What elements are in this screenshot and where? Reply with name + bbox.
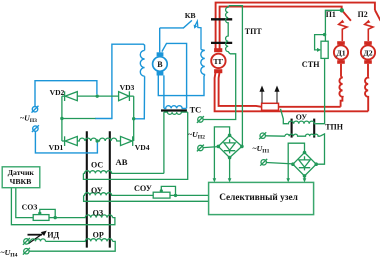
resistor СОУ bbox=[153, 192, 170, 198]
wire: Д2 to series coil bbox=[367, 64, 369, 77]
wire: ТГ bottom-right down to shunt bbox=[219, 72, 262, 107]
wire: terminal to ИД bbox=[29, 240, 30, 242]
wire: terminal to ТПН working winding bbox=[266, 135, 286, 137]
coil ТС secondary bbox=[164, 112, 188, 114]
core bar АВ right bbox=[109, 131, 111, 247]
svg-text:ИД: ИД bbox=[47, 230, 59, 239]
svg-text:ТПН: ТПН bbox=[325, 123, 344, 132]
switch П2 arrow contact bbox=[365, 21, 373, 41]
shunt resistor (ammeter shunt) bbox=[262, 103, 279, 110]
wire: СОЗ bypass jumper bbox=[40, 209, 55, 217]
coil Д2 series field bbox=[365, 77, 368, 98]
coil В field winding bbox=[140, 50, 144, 76]
winding АВ working right bbox=[97, 138, 120, 141]
winding АВ working left bbox=[77, 138, 97, 141]
terminal ~Uп1 lower bbox=[261, 160, 266, 165]
generator ТГ circle bbox=[211, 54, 225, 68]
wire: В top brush to КВ bbox=[159, 28, 161, 52]
wire: ТГ top-right to inner top bus to П1 bbox=[220, 7, 342, 50]
shunt arrow right bbox=[276, 91, 278, 103]
wire: ОР return loop to terminal bbox=[29, 241, 115, 251]
core bar ИД bbox=[28, 234, 43, 236]
svg-text:Д2: Д2 bbox=[363, 48, 372, 57]
node bridge ТПТ vertices bbox=[228, 134, 232, 138]
motor Д1 brushes bbox=[214, 20, 372, 74]
svg-text:ТС: ТС bbox=[190, 105, 202, 114]
svg-text:СОЗ: СОЗ bbox=[22, 202, 38, 211]
wire: VD3 cathode to junction bbox=[129, 95, 133, 97]
wire: Д1 coil to shunt line bbox=[341, 98, 343, 107]
wire: Д1 to series coil bbox=[340, 64, 342, 77]
coil Д1 series field bbox=[339, 77, 342, 98]
motor Д1 circle bbox=[334, 45, 348, 59]
diode VD2 bbox=[64, 91, 66, 101]
winding ОС bbox=[83, 171, 112, 174]
wire: ТПН bridge - to selective node bbox=[304, 176, 306, 179]
diode VD3 bbox=[119, 92, 129, 101]
wire: rectifier output up to exciter field bbox=[95, 44, 145, 118]
winding ОР bbox=[85, 239, 113, 242]
wire: ТПН bridge + to selective node bbox=[288, 143, 304, 179]
wire: ОЗ return loop to sensor bbox=[11, 188, 115, 225]
switch П1 blade bbox=[342, 10, 351, 20]
winding ТПН working bbox=[285, 134, 320, 136]
node П1 tap to СТН bbox=[325, 10, 341, 41]
ИД adjust arrow bbox=[28, 233, 43, 244]
wire: ОС left loop to ТС secondary right bbox=[83, 112, 187, 179]
svg-text:АВ: АВ bbox=[116, 157, 128, 167]
contact КВ blade bbox=[183, 20, 192, 28]
terminal ~Uп3 lower bbox=[33, 126, 38, 131]
wire: ЧВКВ sensor to СОЗ bbox=[16, 188, 33, 218]
svg-text:Селективный узел: Селективный узел bbox=[219, 192, 298, 203]
svg-text:П2: П2 bbox=[358, 10, 368, 19]
terminal ~Uп2 lower bbox=[198, 145, 203, 150]
svg-text:ТГ: ТГ bbox=[213, 57, 223, 66]
wire: ТГ bottom-left down to lower return bus bbox=[215, 72, 369, 111]
bridge ТПТ inner diode bbox=[224, 139, 235, 153]
wire: VD2 to VD3 anode row bbox=[77, 95, 118, 97]
wire: СТН bypass with arrow bbox=[315, 35, 325, 50]
wire: Д2 coil to lower return line bbox=[367, 98, 369, 112]
rectifier bridge (ТПТ) diamond bbox=[218, 135, 242, 157]
П2 arrowhead bbox=[366, 20, 371, 24]
wire: ТПТ bottom to terminal ~Uп2 bbox=[203, 54, 236, 120]
wire: cathode bus VD3-VD4 bbox=[133, 96, 135, 141]
wire: ТГ field coil to В bottom brush bbox=[158, 74, 205, 95]
node СОЗ tap bbox=[38, 212, 41, 215]
svg-text:ОР: ОР bbox=[93, 230, 104, 239]
terminal ~Uп4 upper bbox=[24, 239, 29, 244]
svg-text:Датчик: Датчик bbox=[8, 168, 35, 177]
wire: ТС left to ОС right end bbox=[113, 172, 164, 174]
resistor СТН bbox=[321, 41, 328, 58]
wire: В top brush diagonal to ТС primary right bbox=[162, 43, 187, 108]
contact КВ fixed lead bbox=[160, 27, 184, 29]
box Датчик ЧВКВ bbox=[2, 167, 40, 188]
arrow into selective node from ТПТ bridge + bbox=[213, 178, 217, 182]
wire: ОУ right to СОУ bbox=[113, 194, 154, 196]
wire: ТПН working to right bridge AC bbox=[316, 134, 324, 164]
arrow into selective node from ТПТ bridge - bbox=[228, 178, 232, 182]
node VD2/VD3 AC bbox=[96, 94, 99, 97]
core bar ТПТ top bbox=[211, 18, 232, 20]
wire: lower terminal to VD1/VD4 junction bbox=[35, 131, 97, 153]
core bar ТПТ bottom bbox=[211, 42, 232, 44]
svg-text:ОУ: ОУ bbox=[296, 112, 308, 121]
node СТН top bbox=[323, 33, 326, 36]
winding ТПН control (ОУ) bbox=[287, 121, 316, 124]
terminal ~Uп4 lower bbox=[24, 249, 29, 254]
node СОЗ out bbox=[54, 216, 57, 219]
wire: СОЗ to ОЗ bbox=[49, 217, 85, 219]
node СОУ tap bbox=[160, 189, 163, 192]
diode VD4 bbox=[121, 136, 133, 145]
arrow into selective node from ТПН bridge + bbox=[286, 178, 290, 182]
svg-text:КВ: КВ bbox=[185, 11, 196, 20]
wire: bridge + output to selective node bbox=[214, 127, 229, 179]
wire: ТС secondary left down to ОС bbox=[163, 112, 165, 173]
terminal ~Uп2 upper bbox=[198, 117, 203, 122]
coil ИД (inductive sensor) bbox=[31, 239, 46, 242]
svg-text:ЧВКВ: ЧВКВ bbox=[10, 177, 32, 186]
diode VD1 bbox=[64, 136, 66, 146]
svg-text:В: В bbox=[157, 60, 163, 69]
motor Д2 circle bbox=[361, 45, 375, 59]
coil ТГ field winding (ОВГ) bbox=[201, 50, 205, 75]
svg-text:VD4: VD4 bbox=[135, 143, 150, 152]
КВ arrowhead bbox=[194, 25, 198, 29]
svg-text:ОС: ОС bbox=[91, 160, 103, 169]
box Селективный узел bbox=[209, 182, 314, 214]
generator ТГ brushes bbox=[214, 48, 222, 52]
wire: СОУ to selective node bbox=[170, 194, 209, 196]
svg-text:VD3: VD3 bbox=[120, 83, 135, 92]
svg-text:П1: П1 bbox=[326, 10, 336, 19]
svg-text:СТН: СТН bbox=[302, 60, 320, 69]
svg-text:ОЗ: ОЗ bbox=[93, 208, 103, 217]
contact КВ arrow bbox=[195, 21, 201, 49]
core bar ТПН left bbox=[291, 119, 293, 138]
svg-text:Д1: Д1 bbox=[336, 48, 345, 57]
svg-text:VD2: VD2 bbox=[50, 88, 65, 97]
motor Д2 brushes bbox=[364, 41, 372, 45]
node cathode left bbox=[60, 117, 63, 120]
core bar ТПН right bbox=[313, 119, 315, 138]
switch П1 arrow contact bbox=[339, 21, 347, 41]
bridge ТПН inner diode bbox=[299, 156, 310, 170]
shunt arrow left bbox=[28, 87, 279, 244]
svg-text:ОУ: ОУ bbox=[91, 186, 103, 195]
resistor СОЗ bbox=[33, 215, 49, 221]
arrow СТН bypass bbox=[317, 48, 321, 52]
svg-text:VD1: VD1 bbox=[49, 143, 64, 152]
wire: ОУ left to selective node bbox=[84, 195, 209, 201]
wire: VD2 cathode stub bbox=[62, 95, 65, 97]
wire: В bottom brush to ТС primary left bbox=[163, 75, 165, 108]
svg-text:ТПТ: ТПТ bbox=[245, 27, 263, 36]
wire: cathode bus VD2-VD1 bbox=[61, 96, 63, 141]
arrow into selective node from ТПН bridge - bbox=[303, 178, 307, 182]
node СОУ out bbox=[174, 194, 177, 197]
terminal ~Uп3 upper bbox=[32, 107, 37, 112]
wire: СОУ bypass jumper bbox=[161, 186, 175, 195]
rectifier bridge (ТПН) diamond bbox=[293, 153, 316, 176]
wire: ТПН control tap to motor circuit bbox=[281, 109, 288, 124]
wire: shunt to Д1 branch bbox=[279, 106, 341, 108]
node bridge ТПН vertices bbox=[303, 151, 307, 155]
node П1 tap bbox=[340, 8, 344, 12]
core bar АВ left bbox=[86, 131, 88, 247]
terminal ~Uп1 upper bbox=[260, 133, 265, 138]
wire: lower terminal to left bridge bbox=[203, 147, 218, 148]
switch П2 blade bbox=[375, 10, 380, 21]
wire: ИД to ОР bbox=[46, 240, 85, 242]
coil ТС primary bbox=[164, 106, 187, 109]
wire: upper terminal to VD2/VD3 junction bbox=[35, 81, 97, 107]
wire: junction to rectifier output bbox=[62, 118, 96, 120]
wire: ТГ top-left to outer top bus to П2 bbox=[216, 3, 375, 50]
winding ОУ (amplistat control) bbox=[84, 193, 113, 196]
machine В (exciter) circle bbox=[153, 57, 168, 72]
П1 arrowhead bbox=[340, 20, 345, 24]
node cathode right bbox=[132, 117, 135, 120]
wire: lower terminal to right bridge bbox=[267, 163, 293, 164]
winding ТПТ bbox=[226, 6, 230, 54]
wire: ТПТ top to left bridge AC bbox=[229, 6, 243, 147]
machine В brushes bbox=[157, 25, 198, 76]
node VD1/VD4 AC bbox=[96, 139, 99, 142]
core bar ТС bbox=[161, 109, 187, 111]
winding ОЗ bbox=[85, 215, 113, 218]
wire: СТН down to ТПН control bbox=[316, 58, 325, 123]
wire: bridge - output to selective node bbox=[229, 158, 231, 180]
svg-text:СОУ: СОУ bbox=[134, 184, 152, 193]
wire: field coil back to VD3/VD4 junction bbox=[135, 76, 145, 119]
